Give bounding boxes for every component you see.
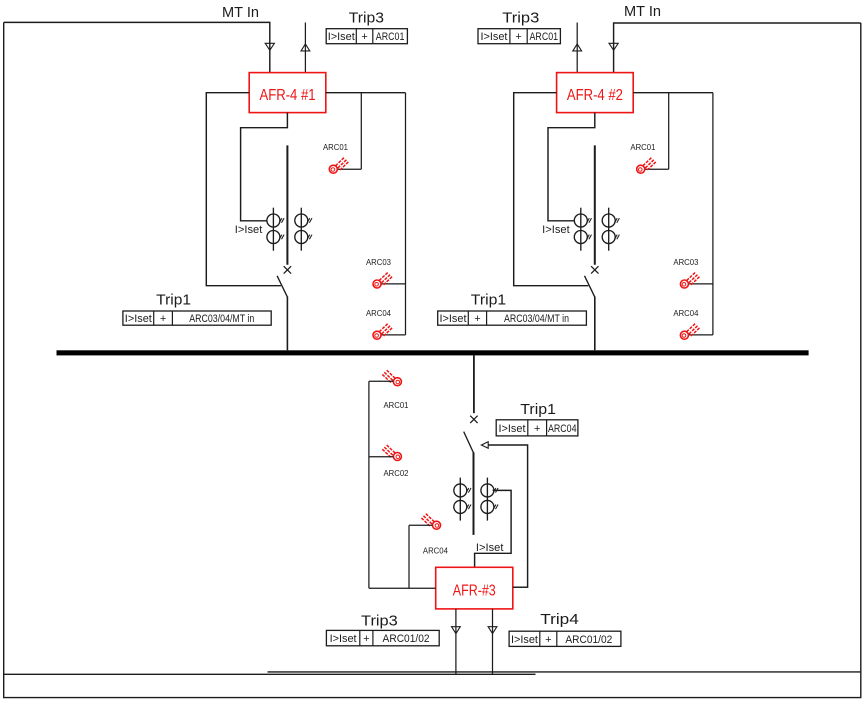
svg-text:Trip1: Trip1: [471, 293, 506, 309]
svg-text:I>Iset: I>Iset: [235, 224, 263, 236]
svg-text:AFR-4 #2: AFR-4 #2: [567, 87, 623, 104]
svg-text:I>Iset: I>Iset: [542, 224, 570, 236]
svg-text:ARC03: ARC03: [366, 257, 391, 267]
svg-text:ARC04: ARC04: [673, 308, 698, 318]
svg-text:ARC03/04/MT in: ARC03/04/MT in: [189, 313, 254, 325]
svg-text:ARC01: ARC01: [530, 31, 559, 43]
svg-text:MT In: MT In: [222, 5, 259, 21]
svg-text:ARC04: ARC04: [548, 423, 577, 435]
svg-text:Trip1: Trip1: [156, 293, 191, 309]
svg-text:+: +: [534, 423, 540, 435]
svg-text:I>Iset: I>Iset: [330, 633, 357, 645]
svg-text:ARC03: ARC03: [673, 257, 698, 267]
svg-text:+: +: [545, 634, 551, 646]
svg-text:I>Iset: I>Iset: [511, 634, 538, 646]
svg-text:ARC03/04/MT in: ARC03/04/MT in: [504, 313, 569, 325]
svg-text:ARC01/02: ARC01/02: [565, 634, 612, 646]
svg-text:Trip3: Trip3: [502, 10, 539, 26]
svg-text:ARC04: ARC04: [366, 308, 391, 318]
svg-text:+: +: [361, 31, 367, 43]
svg-text:ARC01: ARC01: [384, 400, 409, 410]
svg-text:I>Iset: I>Iset: [480, 31, 507, 43]
svg-text:ARC01: ARC01: [376, 31, 405, 43]
svg-text:+: +: [515, 31, 521, 43]
svg-text:I>Iset: I>Iset: [476, 542, 504, 554]
svg-text:ARC01: ARC01: [323, 142, 348, 152]
svg-text:I>Iset: I>Iset: [499, 423, 526, 435]
svg-text:+: +: [363, 633, 369, 645]
svg-text:I>Iset: I>Iset: [328, 31, 355, 43]
svg-text:ARC01: ARC01: [630, 142, 655, 152]
svg-text:I>Iset: I>Iset: [440, 313, 467, 325]
svg-text:+: +: [474, 313, 480, 325]
svg-text:Trip3: Trip3: [361, 613, 398, 629]
svg-text:I>Iset: I>Iset: [125, 313, 152, 325]
svg-text:+: +: [160, 313, 166, 325]
svg-text:ARC02: ARC02: [384, 468, 409, 478]
svg-text:AFR-4 #1: AFR-4 #1: [260, 87, 316, 104]
svg-text:MT In: MT In: [624, 4, 661, 20]
svg-text:Trip3: Trip3: [349, 10, 384, 26]
svg-text:ARC04: ARC04: [423, 545, 448, 555]
svg-text:AFR-#3: AFR-#3: [453, 583, 496, 600]
svg-text:Trip1: Trip1: [520, 402, 556, 418]
svg-text:ARC01/02: ARC01/02: [383, 633, 430, 645]
svg-text:Trip4: Trip4: [540, 612, 579, 628]
